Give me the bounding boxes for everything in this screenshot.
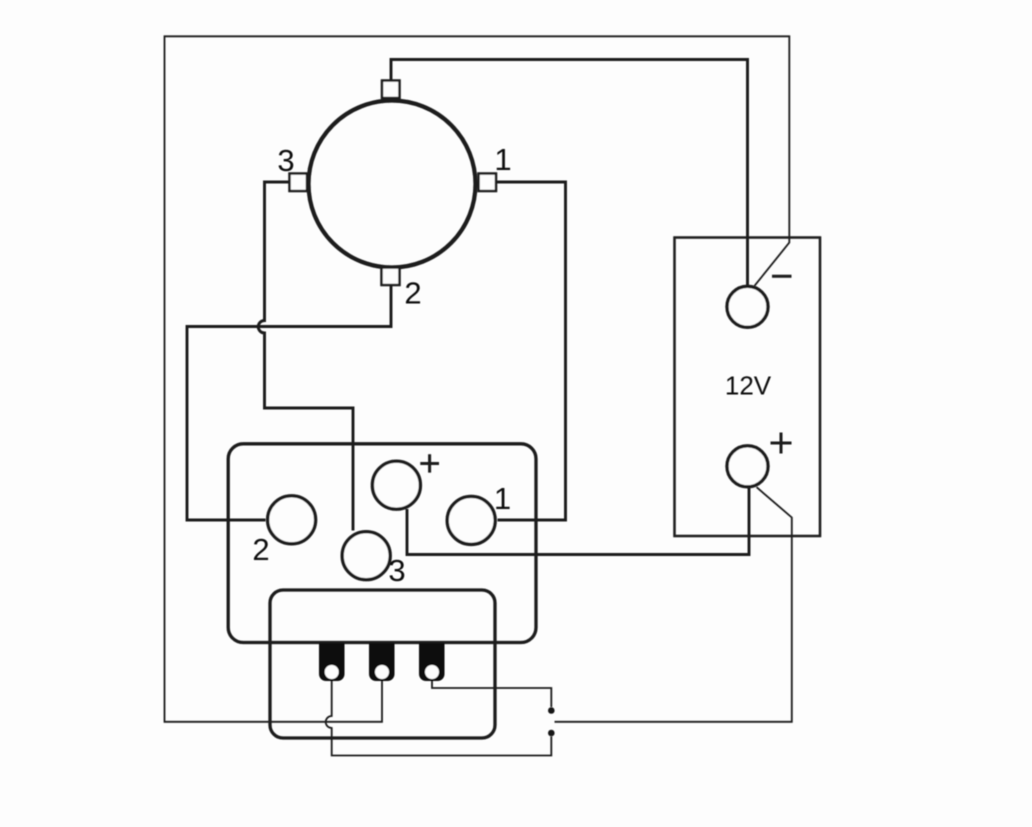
regulator U1 body [228,444,536,643]
battery negative terminal [727,286,768,327]
svg-text:12V: 12V [725,371,772,401]
battery positive terminal [727,446,768,487]
connector pin 2 hole [375,665,389,679]
svg-text:3: 3 [388,553,405,588]
wire: motor terminal 1 to regulator terminal 1 [496,182,566,520]
svg-text:2: 2 [252,532,269,567]
wire: connector pin1 down, hop over bottom wire, to switch lower contact [326,678,552,756]
motor terminal 2 pad [382,268,400,286]
wire: connector pin3 to switch upper contact [432,678,551,707]
svg-text:3: 3 [277,143,294,178]
switch S1 upper contact [548,707,555,714]
regulator terminal 3 [342,532,390,580]
wire: connector pin2 to left/top border into battery negative [165,36,790,722]
connector pin 1 hole [325,665,339,679]
battery negative sign [772,275,792,278]
connector pin 3 hole [425,665,439,679]
wire: battery positive diagonal lead down to switch pole [555,487,792,722]
regulator plus sign [420,454,439,472]
wire: motor terminal 2 to regulator terminal 2 [187,286,391,520]
connector J1 body [270,590,495,738]
svg-text:1: 1 [494,142,511,177]
connector blade pin 2 [369,643,395,681]
svg-text:2: 2 [404,276,421,311]
regulator terminal plus [372,461,420,509]
wire: motor top terminal to battery negative [391,60,748,286]
motor terminal 1 pad [479,174,497,192]
regulator terminal 2 [268,496,316,544]
switch S1 lower contact [548,730,555,737]
connector blade pin 1 [319,643,345,681]
wire: regulator plus to battery positive [407,488,749,555]
wire: motor terminal 3 down (hop over wire) to regulator terminal 3 [258,182,353,531]
motor M1 (alternator stator) body [309,101,476,268]
regulator terminal 1 [447,496,495,544]
connector blade pin 3 [419,643,445,681]
motor terminal 3 pad [290,174,308,192]
battery BT1 body [675,238,821,537]
svg-text:1: 1 [494,481,511,516]
motor terminal top pad [382,81,400,99]
battery positive sign [771,433,792,454]
